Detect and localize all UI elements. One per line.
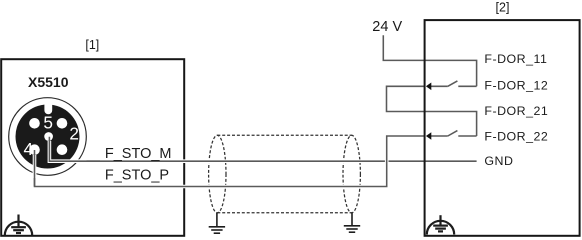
svg-text:F-DOR_21: F-DOR_21 [484,104,548,118]
svg-text:[2]: [2] [496,1,510,15]
wire F_STO_P with casing near connector [35,136,425,187]
svg-text:X5510: X5510 [28,74,69,90]
connector center pin (pin 5) [44,132,53,141]
svg-text:F_STO_P: F_STO_P [105,167,169,183]
connector pin top-right [57,118,68,129]
wire F_STO_M / GND with casing near connector [49,137,476,161]
svg-text:5: 5 [43,112,53,132]
svg-text:GND: GND [484,154,513,168]
switch 2 arrow head [426,132,431,140]
ground symbol in box 2 [427,215,454,234]
switch 1 fixed stub [458,85,476,87]
shield ground right [344,213,360,232]
svg-text:[1]: [1] [85,38,99,52]
wire stems over disc and pins [35,137,101,187]
connector: black disc [16,105,80,169]
shield cylinder: top dashed line [217,134,351,136]
24V feed wire down to row1 and switch1 fixed contact [383,35,476,86]
svg-text:F_STO_M: F_STO_M [105,146,172,162]
svg-text:F-DOR_12: F-DOR_12 [484,79,548,93]
svg-text:4: 4 [24,139,34,159]
connector pin top-left [29,118,40,129]
switch 1 blade [448,81,458,86]
connector pin bottom-right [57,144,68,155]
wire row2 out of box down to row3 and switch2 fixed contact [387,86,477,136]
switch 2 fixed stub [458,135,476,137]
shield cylinder: bottom dashed line [217,212,351,214]
switch 1 arrow head [426,83,431,91]
box [2] device enclosure [425,20,580,236]
connector: wire casing over outer ring [35,137,87,178]
box [1] device enclosure [1,59,184,236]
ground symbol in box 1 [5,215,32,236]
svg-text:F-DOR_11: F-DOR_11 [484,52,547,66]
svg-text:24 V: 24 V [372,19,402,35]
connector X5510: outer circle [9,98,87,176]
connector: keying notch [44,103,52,115]
shield ground left [209,213,225,233]
switch 2 moving line [431,135,448,137]
svg-text:2: 2 [69,124,79,144]
shield cylinder: right dashed ellipse [343,135,360,213]
svg-text:F-DOR_22: F-DOR_22 [484,130,548,144]
shield cylinder: left dashed ellipse [209,135,226,213]
switch 2 blade [448,131,458,136]
connector pin bottom-left (pin 4) [29,144,40,155]
switch 1 moving line [431,85,448,87]
